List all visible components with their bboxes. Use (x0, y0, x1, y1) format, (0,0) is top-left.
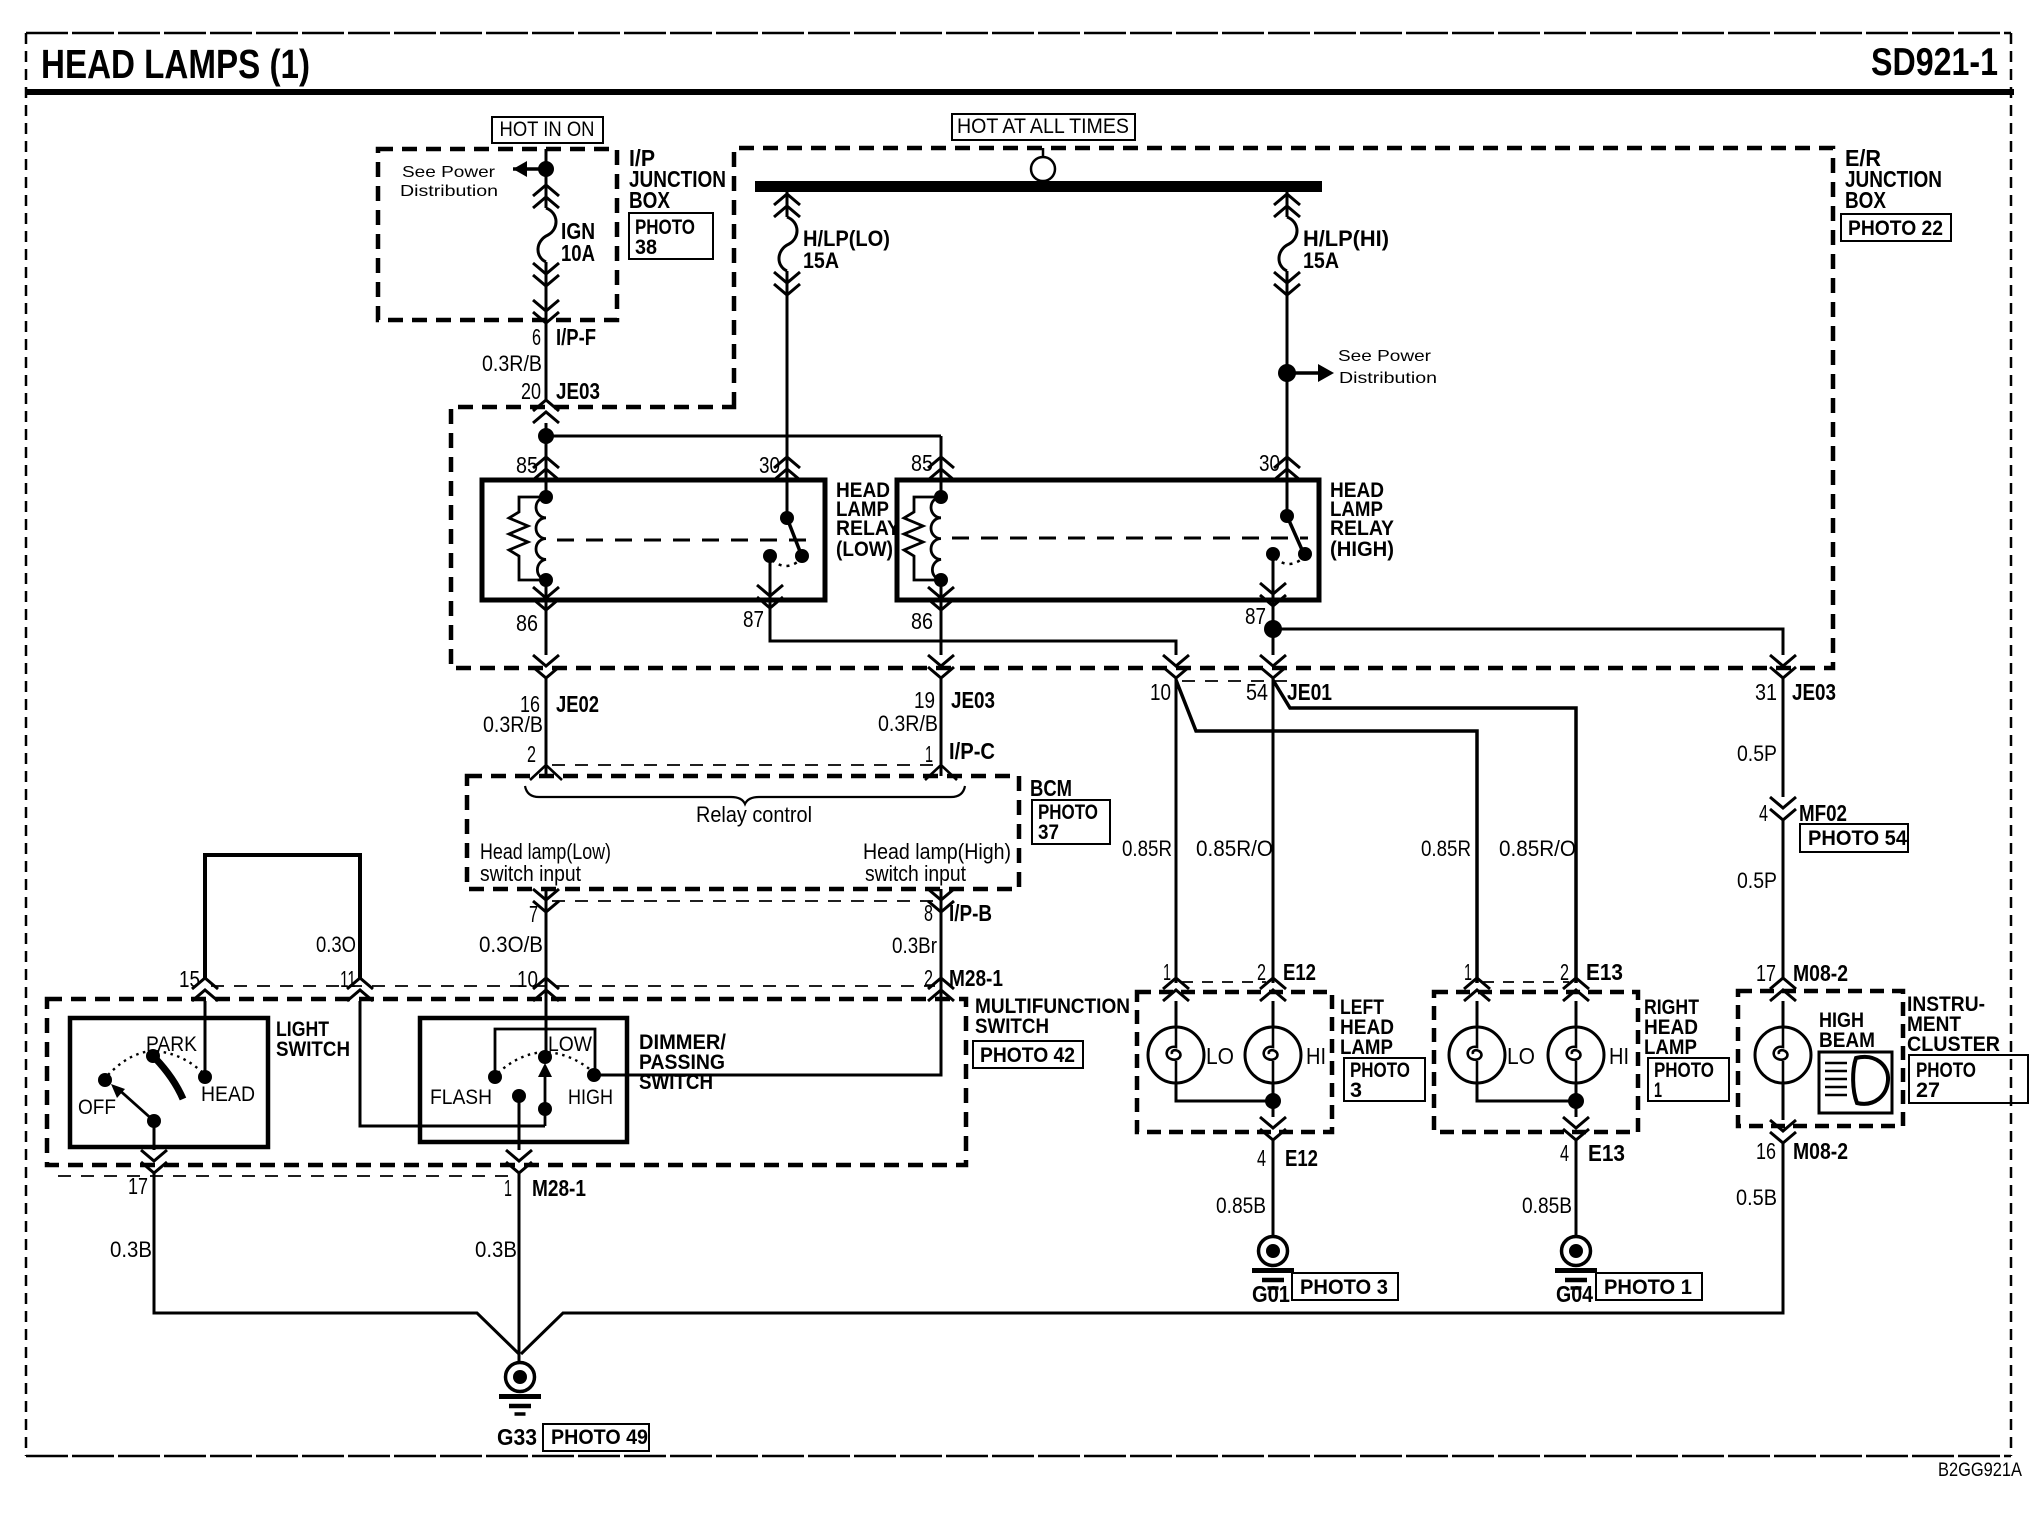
left head lamp name (1340, 996, 1394, 1059)
svg-text:I/P-C: I/P-C (949, 738, 995, 764)
svg-text:0.3B: 0.3B (475, 1237, 517, 1262)
relay LOW resistor (509, 497, 546, 580)
svg-text:LOW: LOW (548, 1033, 592, 1056)
svg-text:MF02: MF02 (1799, 800, 1847, 826)
connector 17 M28-1 out (128, 1150, 167, 1199)
svg-text:OFF: OFF (78, 1096, 116, 1119)
svg-text:HI: HI (1609, 1043, 1629, 1069)
svg-text:E13: E13 (1586, 959, 1623, 985)
pin 30 connector (HIGH) (1274, 457, 1300, 480)
BCM pin7 connector out (529, 889, 559, 1057)
svg-text:16: 16 (1756, 1138, 1776, 1164)
photo ref PHOTO 42 (973, 1041, 1083, 1068)
svg-text:CLUSTER: CLUSTER (1907, 1033, 2000, 1056)
svg-text:B2GG921A: B2GG921A (1938, 1460, 2022, 1481)
svg-text:SD921-1: SD921-1 (1871, 41, 1998, 84)
svg-text:0.3B: 0.3B (110, 1237, 152, 1262)
svg-text:JE01: JE01 (1287, 679, 1332, 705)
photo ref PHOTO 49 (543, 1424, 649, 1451)
relay HIGH name (1330, 479, 1394, 561)
light switch dotted arc (108, 1051, 202, 1075)
relay LOW name (836, 479, 900, 561)
svg-text:0.3Br: 0.3Br (892, 933, 937, 958)
wire 54 to left lamp HI (1272, 678, 1275, 983)
svg-text:10A: 10A (561, 240, 595, 266)
svg-text:1: 1 (1654, 1079, 1662, 1102)
relay LOW switch (763, 480, 809, 587)
svg-text:PHOTO 3: PHOTO 3 (1300, 1276, 1388, 1299)
connector 17 M08-2 (1756, 960, 1848, 1001)
wire fuse HI to relay pin30 (1286, 271, 1289, 480)
dimmer dotted arc (498, 1052, 592, 1073)
see power distribution (left) (400, 161, 546, 200)
svg-text:PHOTO 49: PHOTO 49 (551, 1426, 648, 1449)
wire MF02 to cluster (1782, 820, 1785, 978)
connector bracket I/P-C (552, 764, 935, 766)
svg-text:LAMP: LAMP (1644, 1036, 1697, 1059)
relay HIGH resistor (904, 497, 941, 580)
pin 1 I/P-C (925, 738, 995, 767)
svg-text:G01: G01 (1252, 1281, 1290, 1307)
svg-text:0.85B: 0.85B (1216, 1193, 1266, 1218)
node right lamp common (1568, 1093, 1584, 1109)
I/P junction box name (629, 145, 726, 213)
svg-text:10: 10 (1150, 679, 1171, 705)
head lamp relay (LOW) box (482, 480, 825, 600)
svg-text:JE02: JE02 (556, 691, 599, 717)
wire 17 to ground bus (154, 1173, 519, 1354)
svg-text:LO: LO (1507, 1043, 1535, 1069)
svg-text:I/P-F: I/P-F (556, 324, 596, 350)
connector bracket M28-1 bottom (58, 1175, 512, 1177)
ground bus right segment (521, 1143, 1783, 1354)
connector 4 E13 (1560, 1117, 1625, 1166)
svg-text:G33: G33 (497, 1424, 537, 1450)
instrument cluster box (dashed) (1738, 991, 1903, 1126)
svg-text:Distribution: Distribution (1339, 370, 1437, 387)
svg-text:37: 37 (1038, 821, 1059, 844)
dimmer arm with arrow (538, 1063, 552, 1126)
svg-text:PHOTO 22: PHOTO 22 (1848, 217, 1943, 240)
wire relay LOW 87 to connector 10 (770, 587, 1176, 655)
pin 85 connector (LOW) (533, 457, 559, 480)
high beam indicator bulb (1755, 1001, 1811, 1120)
light switch box (70, 1018, 268, 1147)
pin 86 connector (LOW) (533, 580, 559, 655)
fuse IGN 10A (533, 185, 595, 286)
light switch contacts (98, 1049, 212, 1128)
connector bracket JE01 (1182, 680, 1296, 682)
right head lamp name (1644, 996, 1699, 1059)
svg-text:0.85R: 0.85R (1122, 836, 1172, 861)
svg-text:17: 17 (1756, 960, 1776, 986)
pin 20 JE03 (521, 378, 600, 404)
connector 2 E12 (1257, 959, 1316, 1001)
svg-text:86: 86 (516, 610, 538, 636)
wire flash contact to pin1 (518, 1096, 521, 1150)
light switch U link 15-11 (205, 855, 360, 978)
light switch position labels (78, 1033, 255, 1119)
wire IGN feed vertical (545, 149, 548, 208)
wire fuse LO to relay pin30 (786, 271, 789, 480)
svg-text:0.5P: 0.5P (1737, 741, 1777, 766)
svg-text:4: 4 (1257, 1145, 1266, 1171)
svg-text:FLASH: FLASH (430, 1086, 492, 1109)
right lamp common wires (1477, 1083, 1576, 1117)
wire pin17 from OFF pivot (153, 1121, 156, 1150)
connector pin2 M28-1 (928, 978, 954, 1001)
connector 4 MF02 (1759, 797, 1847, 826)
light switch lever (thick) (155, 1058, 183, 1099)
BCM box (dashed) (467, 776, 1019, 889)
relay LOW mid dashed line (557, 539, 814, 542)
photo ref PHOTO 22 (1841, 214, 1951, 241)
head lamp relay (HIGH) box (897, 480, 1319, 600)
wire 86 LOW to BCM pin2 (545, 678, 548, 776)
svg-text:0.5P: 0.5P (1737, 868, 1777, 893)
battery node circle on bus (1031, 148, 1055, 181)
fuse H/LP(LO) 15A (774, 192, 890, 295)
pin 86 connector (HIGH) (928, 580, 954, 655)
svg-text:BCM: BCM (1030, 775, 1072, 801)
connector bracket E12 (1182, 981, 1266, 983)
bulb HI (left) (1245, 1001, 1326, 1083)
svg-text:See Power: See Power (1338, 348, 1432, 365)
wire 10 to left lamp LO (1175, 678, 1178, 983)
photo ref PHOTO 1 (1596, 1273, 1702, 1300)
title rule (26, 89, 2014, 95)
svg-text:0.85R/O: 0.85R/O (1499, 836, 1576, 861)
high beam icon (1819, 1052, 1892, 1113)
svg-text:See Power: See Power (402, 164, 496, 181)
relay HIGH mid dashed line (952, 537, 1308, 540)
node on 87 (HIGH) (1264, 585, 1282, 655)
connector pin11 (347, 978, 373, 1001)
connector pin10 (533, 978, 559, 1001)
svg-text:7: 7 (529, 901, 538, 927)
svg-text:HOT AT ALL TIMES: HOT AT ALL TIMES (957, 115, 1129, 138)
pin 87 connector (HIGH) (1260, 583, 1286, 606)
ground G01 (1252, 1237, 1294, 1289)
svg-text:JE03: JE03 (1792, 679, 1836, 705)
wire high contact to pin2 riser (594, 1001, 941, 1075)
svg-text:HI: HI (1306, 1043, 1326, 1069)
E/R junction box name (1845, 145, 1942, 213)
high beam label (1819, 1009, 1875, 1052)
svg-text:0.3R/B: 0.3R/B (482, 351, 542, 376)
dimmer switch name (639, 1031, 726, 1094)
svg-text:PHOTO 54: PHOTO 54 (1808, 827, 1907, 850)
wire pin11 down and across to dimmer (360, 1001, 545, 1126)
svg-text:switch input: switch input (865, 861, 966, 886)
pin 30 connector (LOW) (774, 457, 800, 480)
svg-text:SWITCH: SWITCH (276, 1038, 350, 1061)
svg-text:G04: G04 (1556, 1281, 1593, 1307)
svg-text:HEAD LAMPS (1): HEAD LAMPS (1) (41, 41, 310, 87)
connector bracket E13 (1483, 981, 1569, 983)
I/P junction box (dashed) (378, 149, 617, 320)
pin 87 connector (LOW) (757, 585, 783, 608)
svg-text:1: 1 (1464, 959, 1472, 985)
connector at I/P box exit (533, 300, 559, 323)
fuse H/LP(HI) 15A (1274, 192, 1389, 295)
svg-text:0.85B: 0.85B (1522, 1193, 1572, 1218)
svg-text:BOX: BOX (629, 187, 671, 213)
pin 85 connector (HIGH) (928, 457, 954, 480)
instrument cluster name (1907, 993, 2000, 1056)
svg-text:54: 54 (1246, 679, 1268, 705)
multifunction switch box (dashed) (47, 999, 966, 1165)
svg-text:HIGH: HIGH (568, 1086, 613, 1109)
bulb LO (right) (1449, 1001, 1535, 1083)
svg-text:HOT IN ON: HOT IN ON (500, 118, 595, 141)
svg-text:30: 30 (1259, 450, 1280, 476)
connector 16 M08-2 (1756, 1120, 1848, 1164)
svg-text:E13: E13 (1588, 1140, 1625, 1166)
power bus bar (755, 181, 1322, 192)
svg-text:87: 87 (743, 606, 764, 632)
label box HOT AT ALL TIMES (952, 114, 1135, 140)
relay HIGH coil (931, 474, 948, 587)
svg-text:0.85R: 0.85R (1421, 836, 1471, 861)
svg-text:0.3R/B: 0.3R/B (878, 711, 938, 736)
svg-text:0.3R/B: 0.3R/B (483, 712, 543, 737)
photo ref PHOTO 3 (box) (1344, 1058, 1425, 1102)
connector 54 JE01 (1246, 655, 1332, 705)
svg-text:M08-2: M08-2 (1793, 960, 1848, 986)
svg-text:2: 2 (527, 741, 536, 767)
head lamp low switch input text (480, 839, 611, 886)
svg-text:1: 1 (504, 1175, 512, 1201)
svg-text:15: 15 (179, 966, 200, 992)
svg-text:LO: LO (1206, 1043, 1234, 1069)
svg-text:1: 1 (1163, 959, 1171, 985)
connector JE03 into E/R box (533, 400, 559, 423)
svg-text:38: 38 (635, 236, 657, 259)
connector pin1 into BCM (925, 765, 957, 780)
svg-text:8: 8 (924, 900, 933, 926)
bulb LO (left) (1148, 1001, 1234, 1083)
relay HIGH switch (1266, 480, 1312, 585)
svg-text:27: 27 (1916, 1079, 1940, 1102)
svg-text:(HIGH): (HIGH) (1330, 538, 1394, 561)
head lamp high switch input text (863, 839, 1011, 886)
svg-text:M28-1: M28-1 (949, 965, 1003, 991)
node left lamp common (1265, 1093, 1281, 1109)
wire to G01 (1272, 1140, 1275, 1237)
svg-text:Distribution: Distribution (400, 183, 498, 200)
pin 2 M28-1 (924, 965, 1003, 991)
svg-text:1: 1 (925, 741, 933, 767)
connector 1 E13 (1464, 959, 1490, 1001)
connector 31 JE03 (1755, 655, 1836, 705)
right head lamp box (dashed) (1434, 992, 1638, 1132)
light switch name (276, 1018, 350, 1061)
dimmer position labels (430, 1033, 613, 1109)
node to power distribution (right) (1278, 364, 1296, 382)
photo ref PHOTO 37 (1032, 800, 1110, 844)
BCM pin8 connector out (924, 889, 992, 1000)
connector 2 E13 (1560, 959, 1623, 1001)
svg-text:0.85R/O: 0.85R/O (1196, 836, 1273, 861)
wire 54 branch to right lamp HI (1273, 680, 1576, 983)
node 85 branch (538, 428, 554, 444)
svg-text:4: 4 (1759, 800, 1768, 826)
svg-text:PARK: PARK (146, 1033, 197, 1056)
wire fuse to I/P box bottom (545, 262, 548, 400)
wire HEAD contact to pin15 (204, 1001, 207, 1077)
wire 10 branch to right lamp LO (1176, 680, 1477, 983)
E/R junction box outline (dashed, stepped) (451, 148, 1833, 668)
svg-text:Relay control: Relay control (696, 802, 812, 827)
connector pin2 into BCM (530, 765, 562, 780)
svg-text:87: 87 (1245, 603, 1266, 629)
svg-text:85: 85 (911, 450, 933, 476)
connector 1 M28-1 out (504, 1150, 586, 1201)
connector 10 JE01 (1150, 655, 1189, 705)
dimmer flash-high bracket (495, 1029, 595, 1077)
wire 1 M28-1 to ground (518, 1173, 521, 1362)
svg-text:15A: 15A (803, 248, 839, 273)
svg-text:BEAM: BEAM (1819, 1029, 1875, 1052)
wire 86 HIGH to BCM pin1 (940, 678, 943, 776)
svg-text:19: 19 (914, 687, 935, 713)
label box HOT IN ON (492, 117, 603, 143)
photo ref PHOTO 38 (629, 213, 713, 259)
svg-text:PHOTO: PHOTO (1654, 1059, 1714, 1082)
svg-text:86: 86 (911, 608, 933, 634)
svg-text:4: 4 (1560, 1140, 1569, 1166)
svg-text:JE03: JE03 (951, 687, 995, 713)
svg-text:(LOW): (LOW) (836, 538, 893, 561)
left lamp common wires (1176, 1083, 1273, 1117)
ground G33 (499, 1363, 541, 1415)
wire to G04 (1575, 1140, 1578, 1237)
photo ref PHOTO 3 (1292, 1273, 1398, 1300)
dimmer/passing switch box (420, 1018, 627, 1142)
connector 4 E12 (1257, 1117, 1318, 1171)
connector bracket M28-1 top (211, 985, 935, 987)
svg-text:0.5B: 0.5B (1736, 1185, 1777, 1210)
left head lamp box (dashed) (1137, 992, 1332, 1132)
svg-text:PHOTO 42: PHOTO 42 (980, 1044, 1075, 1067)
svg-text:M28-1: M28-1 (532, 1175, 586, 1201)
svg-text:BOX: BOX (1845, 187, 1887, 213)
photo ref PHOTO 27 (1909, 1055, 2028, 1103)
see power distribution (right) (1294, 348, 1437, 387)
svg-text:switch input: switch input (480, 861, 581, 886)
connector 19 JE03 (914, 655, 995, 713)
svg-text:E12: E12 (1283, 959, 1316, 985)
multifunction switch name (975, 995, 1130, 1038)
svg-text:LAMP: LAMP (1340, 1036, 1393, 1059)
connector pin15 (192, 978, 218, 1001)
ground G04 (1555, 1237, 1597, 1289)
svg-text:0.3O/B: 0.3O/B (479, 932, 543, 957)
connector 1 E12 (1163, 959, 1189, 1001)
light switch arm arrow (111, 1084, 154, 1121)
node on IGN feed (538, 161, 554, 177)
svg-text:20: 20 (521, 378, 541, 404)
connector bracket I/P-B (552, 900, 935, 902)
svg-text:E12: E12 (1285, 1145, 1318, 1171)
svg-text:SWITCH: SWITCH (975, 1015, 1049, 1038)
svg-text:3: 3 (1350, 1079, 1362, 1102)
svg-text:31: 31 (1755, 679, 1777, 705)
svg-text:RELAY: RELAY (1330, 517, 1394, 540)
connector 16 JE02 (520, 655, 599, 717)
svg-text:JE03: JE03 (556, 378, 600, 404)
svg-text:RELAY: RELAY (836, 517, 900, 540)
wire 31 JE03 to MF02 (1782, 678, 1785, 797)
pin 6 I/P-F (532, 324, 596, 350)
svg-text:HEAD: HEAD (201, 1083, 255, 1106)
wire 87 HIGH to 31 JE03 (1273, 629, 1783, 655)
bulb HI (right) (1548, 1001, 1629, 1083)
dimmer contacts (488, 1050, 601, 1116)
svg-text:PHOTO 1: PHOTO 1 (1604, 1276, 1692, 1299)
photo ref PHOTO 1 (box) (1648, 1058, 1729, 1102)
svg-text:6: 6 (532, 324, 541, 350)
photo ref PHOTO 54 (1800, 824, 1908, 852)
wire 85 feed from JE03 to relays (546, 423, 941, 480)
relay control brace (525, 786, 965, 804)
svg-text:15A: 15A (1303, 248, 1339, 273)
svg-text:M08-2: M08-2 (1793, 1138, 1848, 1164)
svg-text:85: 85 (516, 452, 538, 478)
svg-text:I/P-B: I/P-B (949, 900, 992, 926)
svg-text:0.3O: 0.3O (316, 932, 356, 957)
relay LOW coil (536, 474, 553, 587)
